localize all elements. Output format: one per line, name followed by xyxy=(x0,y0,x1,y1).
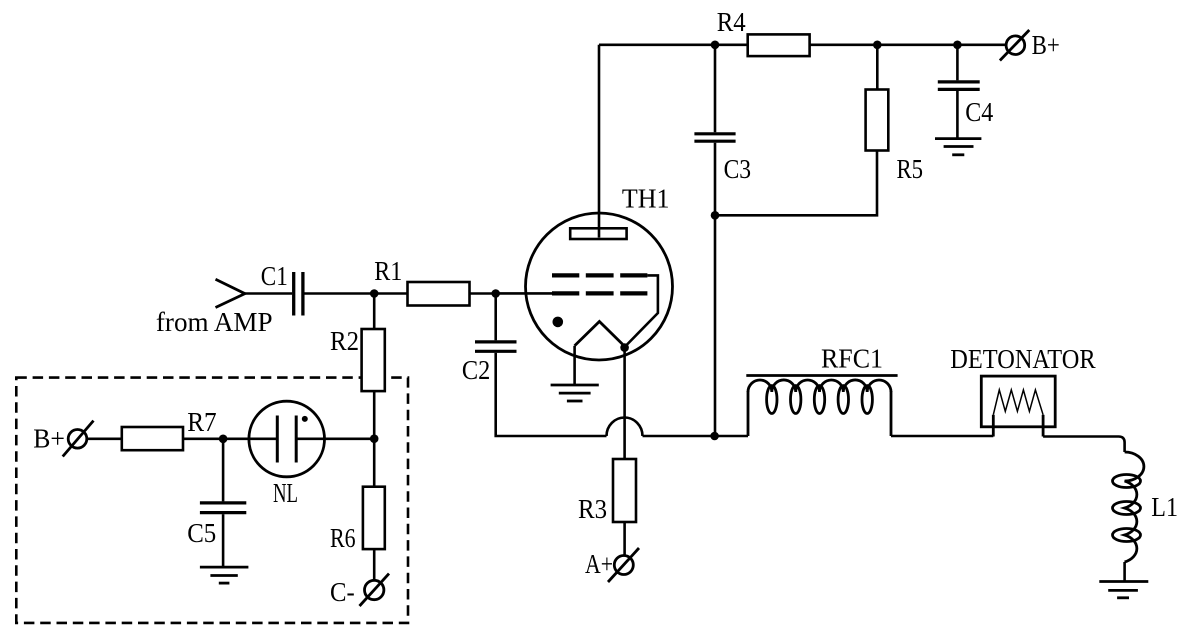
svg-text:C2: C2 xyxy=(462,354,490,385)
wire C2 down and bus to hop xyxy=(496,353,607,436)
wire input to C1 xyxy=(245,292,292,295)
label C4 xyxy=(965,96,993,127)
node B junction xyxy=(491,289,500,298)
cathode xyxy=(575,322,625,347)
RFC1 core bar xyxy=(746,374,897,377)
node D junction xyxy=(710,432,719,441)
svg-text:DETONATOR: DETONATOR xyxy=(950,343,1096,374)
label NL xyxy=(273,477,298,508)
svg-text:A+: A+ xyxy=(585,548,613,579)
wire R4 to B+ xyxy=(810,43,1007,46)
label A+ xyxy=(585,548,613,579)
inductor L1 xyxy=(1113,452,1144,562)
terminal B+ top xyxy=(1000,30,1029,61)
label C1 xyxy=(261,260,288,291)
capacitor C2 xyxy=(475,342,517,351)
label R4 xyxy=(717,6,746,37)
svg-text:R4: R4 xyxy=(717,6,746,37)
wire R1 to node B xyxy=(470,292,496,295)
node cathode junction xyxy=(620,343,629,352)
svg-text:RFC1: RFC1 xyxy=(821,343,883,374)
node G junction (C4 top) xyxy=(953,41,962,50)
svg-text:B+: B+ xyxy=(33,423,65,454)
wire node E down to C3 xyxy=(714,45,717,132)
wire C4 to ground xyxy=(956,91,959,139)
svg-text:NL: NL xyxy=(273,477,298,508)
terminal B+ left xyxy=(63,421,94,457)
grid 2 dashes xyxy=(552,273,647,277)
node F junction (R5 top) xyxy=(873,41,882,50)
wire node D to RFC1 xyxy=(715,435,748,438)
NL gas dot xyxy=(302,416,308,422)
label C3 xyxy=(724,153,752,184)
label TH1 xyxy=(622,183,670,214)
detonator box xyxy=(981,376,1055,427)
svg-text:from AMP: from AMP xyxy=(156,306,273,337)
label R5 xyxy=(897,153,924,184)
resistor R4 xyxy=(748,34,810,56)
label R2 xyxy=(330,325,359,356)
capacitor C5 xyxy=(200,503,246,513)
detonator right leg xyxy=(1042,415,1045,437)
label R1 xyxy=(374,255,402,286)
svg-text:L1: L1 xyxy=(1151,491,1178,522)
wire R3 to A+ xyxy=(623,522,626,555)
neon lamp NL xyxy=(249,401,325,477)
resistor R5 xyxy=(866,90,889,151)
svg-text:C4: C4 xyxy=(965,96,993,127)
resistor R7 xyxy=(122,427,183,450)
wire node H to R5 bottom xyxy=(715,151,877,216)
svg-text:R2: R2 xyxy=(330,325,359,356)
resistor R6 xyxy=(363,487,385,549)
wire B+ to R7 xyxy=(87,437,122,440)
svg-text:R7: R7 xyxy=(187,406,217,437)
ground (C4) xyxy=(935,139,981,155)
svg-text:C-: C- xyxy=(330,576,355,607)
svg-text:C5: C5 xyxy=(187,517,216,548)
terminal C- xyxy=(360,574,390,606)
label R6 xyxy=(330,522,356,553)
node C junction xyxy=(370,434,379,443)
svg-text:TH1: TH1 xyxy=(622,183,670,214)
capacitor C4 xyxy=(938,82,980,90)
label B+ left xyxy=(33,423,65,454)
wire node H down to bus xyxy=(714,215,717,436)
label R3 xyxy=(578,493,607,524)
node E junction (C3 top) xyxy=(711,41,720,50)
anode plate xyxy=(570,228,626,239)
resistor R3 xyxy=(613,459,636,522)
wire node A to R1 xyxy=(374,292,408,295)
wire C1 to node A xyxy=(305,292,375,295)
svg-text:R5: R5 xyxy=(897,153,924,184)
label L1 xyxy=(1151,491,1178,522)
wire node C down to R6 xyxy=(373,439,376,487)
wire R5 top xyxy=(876,45,879,90)
wire hop to node D xyxy=(643,435,715,438)
wire grid 2 to cathode xyxy=(625,275,658,347)
tube TH1 envelope xyxy=(526,213,673,360)
wire cathode right down to R3 xyxy=(623,348,626,459)
capacitor C1 xyxy=(294,272,303,316)
wire RFC1 to detonator xyxy=(891,435,993,438)
wire top bus xyxy=(599,43,748,46)
label from AMP xyxy=(156,306,273,337)
grid 1 dashes xyxy=(552,291,647,295)
label DETONATOR xyxy=(950,343,1096,374)
wire R7 to node J xyxy=(183,437,223,440)
wire C3 down to node H xyxy=(714,143,717,216)
svg-text:C1: C1 xyxy=(261,260,288,291)
svg-text:B+: B+ xyxy=(1032,29,1060,60)
node A junction xyxy=(370,289,379,298)
dashed enclosure box xyxy=(16,378,408,623)
wire R6 to C- xyxy=(373,549,376,580)
input arrow (from AMP) xyxy=(216,279,245,307)
wire node B down to C2 xyxy=(494,294,497,341)
wire R2 to node C xyxy=(373,391,376,439)
capacitor C3 xyxy=(694,134,735,141)
wire cathode left to ground xyxy=(573,346,576,385)
svg-text:R6: R6 xyxy=(330,522,356,553)
resistor R2 xyxy=(362,329,385,391)
svg-text:R1: R1 xyxy=(374,255,402,286)
node J junction xyxy=(219,435,228,444)
inductor RFC1 xyxy=(748,380,891,436)
svg-text:C3: C3 xyxy=(724,153,752,184)
label C2 xyxy=(462,354,490,385)
label B+ top xyxy=(1032,29,1060,60)
detonator left leg xyxy=(992,415,995,437)
gas dot xyxy=(553,317,564,328)
label RFC1 xyxy=(821,343,883,374)
label R7 xyxy=(187,406,217,437)
ground (L1) xyxy=(1099,582,1148,598)
wire NL to node C xyxy=(296,437,374,440)
wire node B to grid 1 xyxy=(496,292,552,295)
wire node A down to R2 xyxy=(373,294,376,330)
svg-text:R3: R3 xyxy=(578,493,607,524)
wire hop over cathode lead xyxy=(607,418,643,437)
terminal A+ xyxy=(608,548,639,582)
label C5 xyxy=(187,517,216,548)
node H junction xyxy=(711,211,720,220)
ground (C5) xyxy=(200,567,249,583)
ground (cathode) xyxy=(551,385,599,401)
wire node J to NL xyxy=(223,437,277,440)
wire anode lead up xyxy=(598,45,601,238)
wire detonator to L1 xyxy=(1043,437,1125,453)
wire L1 to ground xyxy=(1123,562,1126,582)
wire C5 to ground xyxy=(222,514,225,567)
detonator zigzag xyxy=(993,390,1043,415)
wire node G down to C4 xyxy=(956,45,959,81)
resistor R1 xyxy=(408,282,470,306)
wire node J down to C5 xyxy=(222,439,225,502)
label C- xyxy=(330,576,355,607)
